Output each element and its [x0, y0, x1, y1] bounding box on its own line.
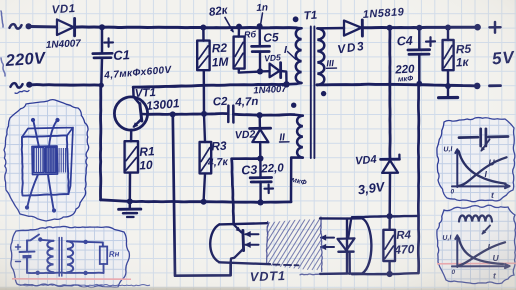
resistor R1 10 — [125, 141, 138, 172]
transformer coil bobbin — [32, 146, 58, 175]
optocoupler VDT1 phototransistor half — [219, 223, 266, 224]
capacitor symbol in graph cloud — [459, 136, 478, 139]
node C3 bottom — [257, 199, 263, 205]
battery B sketch — [16, 246, 21, 248]
sketch cloud: battery-transformer circuit — [11, 226, 130, 287]
node R5 top — [445, 25, 451, 31]
node C4 bottom — [416, 81, 422, 87]
winding I phase dot — [293, 16, 299, 22]
wire output top rail — [363, 26, 478, 30]
node VD2 bottom — [257, 155, 263, 161]
capacitor C5 1n — [259, 27, 261, 46]
AC input tilde top — [10, 24, 22, 29]
load resistor Rn sketch — [67, 241, 103, 246]
sketch cloud: capacitor charge graph — [437, 118, 515, 202]
winding III — [317, 28, 324, 85]
optocoupler VDT1 LED half — [347, 218, 362, 273]
transformer core sketch — [58, 238, 60, 277]
I decay curve — [459, 151, 506, 183]
diode VD1 — [57, 20, 74, 36]
wire opto collector branch — [232, 159, 261, 225]
transistor VT1 13001 — [114, 97, 147, 130]
annotation arrow — [482, 140, 490, 151]
U rise curve — [459, 157, 507, 186]
diode VD2 — [259, 116, 262, 128]
node: input top terminal — [26, 23, 32, 29]
resistor RG — [238, 27, 241, 37]
wire top DC rail — [76, 25, 297, 29]
output - terminal — [474, 83, 481, 90]
ground — [129, 201, 132, 208]
node R4 bottom — [387, 271, 393, 277]
node C5/RG/VD5 — [257, 68, 263, 74]
AC input tilde bottom — [11, 83, 23, 88]
transformer T1 primary winding I — [296, 28, 302, 83]
diode VD3 1N5819 — [344, 21, 361, 36]
transformer lead wires — [34, 122, 40, 148]
node collector/primary/VD5 — [283, 81, 289, 87]
wire opto emitter branch — [173, 115, 231, 276]
node R3 bottom — [201, 199, 207, 205]
wire LED top — [352, 216, 418, 217]
chassis bar below R5 — [447, 86, 449, 97]
node: input bottom terminal — [26, 82, 32, 88]
notebook pink rule line left — [12, 278, 131, 280]
capacitor C1 — [101, 28, 104, 53]
node R1-ground — [127, 198, 133, 204]
switch SA sketch — [27, 235, 39, 241]
zener VD4 3.9V — [381, 158, 400, 161]
node VD4 branch top — [387, 25, 393, 31]
inductor symbol in graph cloud — [459, 216, 492, 222]
sketch cloud: transformer photo — [4, 100, 89, 221]
resistor R2 1M — [202, 28, 205, 41]
notebook pink rule line right — [437, 262, 516, 265]
capacitor C2 4,7n — [227, 106, 230, 122]
winding II phase dot — [291, 103, 296, 108]
node C1 top — [99, 24, 105, 30]
light arrows at phototransistor — [246, 233, 259, 235]
axes U,I vs t — [455, 235, 459, 267]
node R4 top — [387, 213, 393, 219]
winding III phase dot — [321, 91, 326, 96]
node C5 top — [257, 23, 263, 29]
bottom wire sketch — [27, 272, 104, 275]
node R2 top — [200, 25, 206, 31]
capacitor C3 22mkF — [259, 159, 262, 177]
phototransistor of VDT1 — [241, 230, 245, 250]
transformer body sketch — [22, 135, 69, 195]
U decay curve — [459, 238, 503, 264]
secondary winding sketch — [67, 241, 73, 272]
wire VD4 branch vertical — [388, 28, 391, 158]
wire input to VD1 — [31, 25, 57, 28]
resistor R4 470 — [388, 217, 391, 230]
capacitor C4 220mkF — [418, 28, 421, 49]
wire opto right branch vertical — [417, 84, 420, 273]
wire base line — [149, 112, 227, 116]
output + terminal — [474, 24, 481, 31]
node base/opto — [170, 111, 176, 117]
wire input bottom rail — [32, 83, 102, 87]
node RG top — [236, 24, 242, 30]
primary winding sketch — [47, 241, 53, 272]
wire LED bottom — [352, 273, 419, 274]
annotation arrow — [483, 226, 491, 234]
node C4 top — [416, 25, 422, 31]
light arrows at LED — [321, 237, 334, 239]
LED of VDT1 — [348, 219, 351, 239]
diode VD5 1N4007 — [260, 70, 269, 73]
wire left drop to ground rail — [99, 83, 104, 88]
winding II — [297, 116, 303, 158]
wire output bottom rail — [317, 84, 477, 86]
node R5 bottom — [445, 83, 451, 89]
resistor R5 1k — [447, 28, 449, 40]
paper edge marks — [1, 11, 3, 27]
T1 core — [310, 27, 312, 159]
node base/R2R3 — [201, 111, 207, 117]
wire ground rail — [101, 200, 291, 203]
sketch cloud: inductor charge graph — [437, 205, 516, 283]
stray squiggle above cloud — [15, 91, 29, 94]
node base/VD2/II — [257, 112, 263, 118]
resistor R3 4,7k — [204, 114, 205, 142]
axes U,I vs t — [455, 149, 459, 187]
wire collector to primary bottom — [133, 84, 286, 87]
I rise curve — [459, 242, 506, 265]
